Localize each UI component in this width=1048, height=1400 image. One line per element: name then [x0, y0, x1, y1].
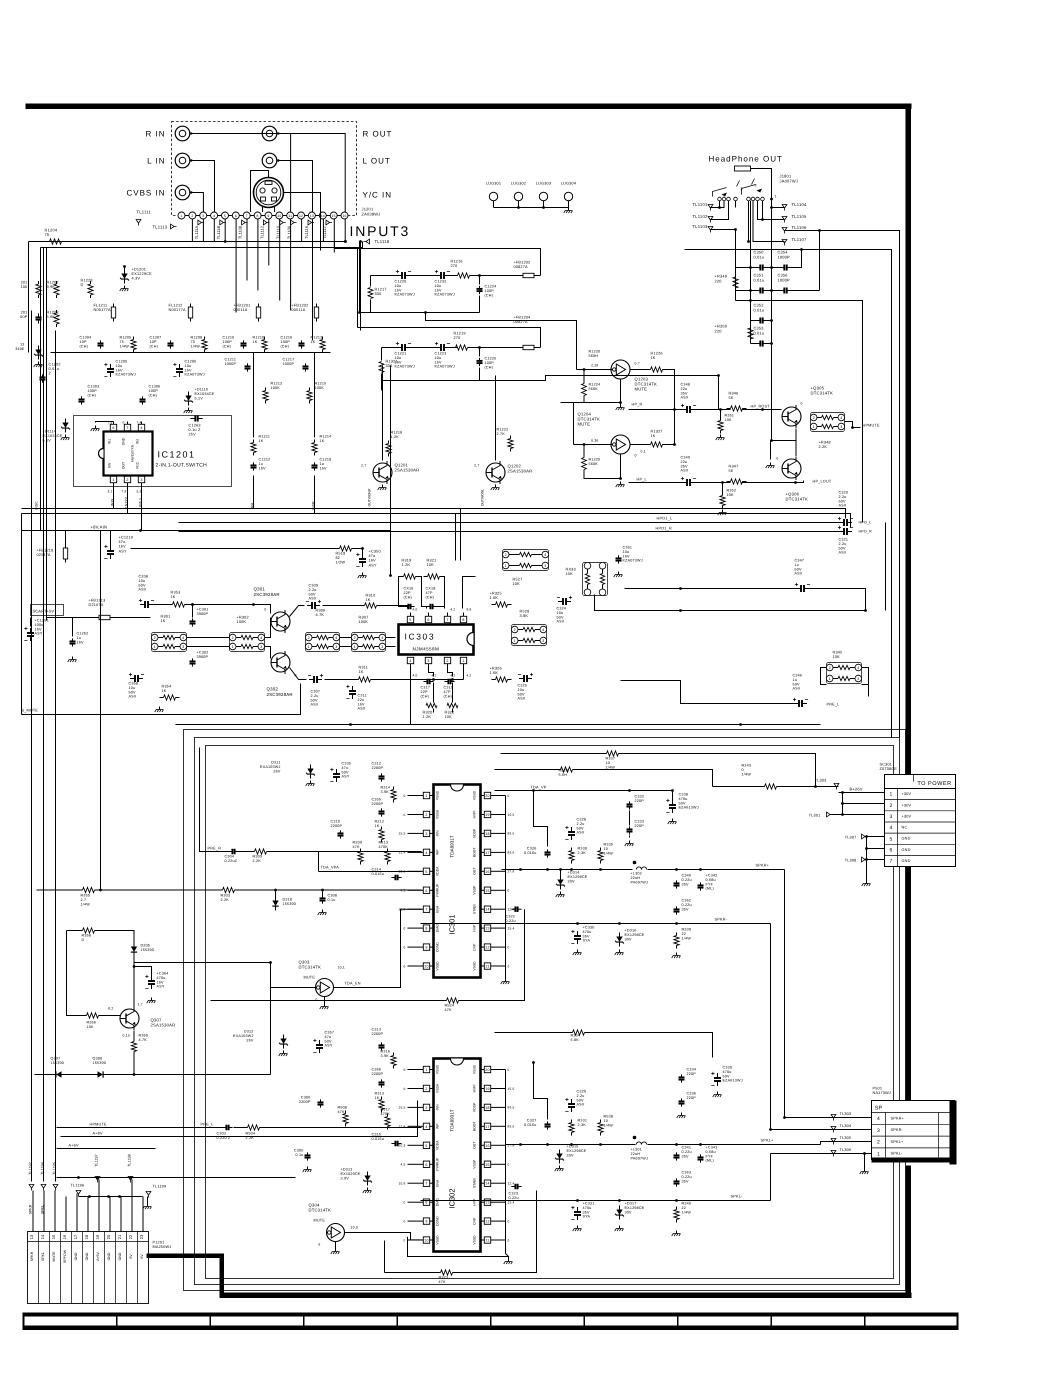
inductor L301 [633, 1136, 637, 1140]
svg-text:7,8: 7,8 [122, 490, 127, 494]
svg-text:R1208: R1208 [191, 336, 203, 340]
svg-text:18: 18 [485, 832, 489, 836]
ground Q1203 [620, 405, 622, 408]
svg-text:4: 4 [260, 636, 262, 640]
svg-text:89.6: 89.6 [508, 1125, 515, 1129]
svg-text:TL1105: TL1105 [792, 214, 808, 219]
svg-text:16: 16 [342, 214, 346, 218]
svg-text:00P: 00P [20, 315, 28, 319]
svg-text:R347: R347 [729, 465, 739, 469]
svg-text:35V: 35V [583, 1210, 591, 1214]
svg-text:1.6K: 1.6K [490, 671, 499, 675]
wire conn v3 [54, 1191, 56, 1232]
svg-text:4: 4 [542, 628, 544, 632]
svg-text:4: 4 [213, 214, 215, 218]
svg-text:+R348: +R348 [819, 441, 831, 445]
wire conn v9 [120, 1197, 122, 1232]
svg-text:R1224: R1224 [589, 383, 601, 387]
svg-text:16: 16 [62, 1234, 67, 1239]
svg-text:14: 14 [485, 908, 489, 912]
dashed input box [172, 122, 357, 216]
svg-text:2SA1530AR: 2SA1530AR [508, 469, 533, 474]
svg-text:2: 2 [877, 1140, 880, 1146]
ground C338 [672, 819, 674, 822]
svg-text:GND: GND [107, 1252, 111, 1260]
svg-text:47P: 47P [444, 690, 452, 694]
svg-text:ASX: ASX [793, 687, 801, 691]
svg-text:1: 1 [180, 214, 182, 218]
svg-text:SPKR+: SPKR+ [891, 1116, 905, 1120]
svg-text:ASY: ASY [35, 632, 43, 636]
svg-text:1: 1 [890, 792, 893, 798]
svg-text:(CH): (CH) [485, 365, 494, 369]
svg-text:R213: R213 [379, 841, 389, 845]
svg-text:SPKR-: SPKR- [891, 1128, 904, 1132]
svg-text:C208: C208 [139, 575, 149, 579]
wire hp tl1101 [711, 201, 725, 208]
border top bar [26, 104, 912, 110]
wire sp p2 [821, 1142, 872, 1145]
svg-text:6: 6 [425, 1163, 427, 1167]
svg-text:R1214: R1214 [320, 435, 332, 439]
svg-text:C310: C310 [331, 820, 341, 824]
svg-text:6V: 6V [140, 1254, 144, 1259]
wire pin11 stub [290, 219, 292, 311]
svg-text:STABI: STABI [473, 904, 477, 914]
svg-text:270: 270 [451, 264, 458, 268]
svg-text:1K: 1K [651, 434, 656, 438]
wire hp y300 [736, 301, 863, 523]
svg-text:R331: R331 [578, 1119, 588, 1123]
svg-text:35V: 35V [682, 1179, 690, 1183]
svg-text:1u: 1u [793, 678, 798, 682]
svg-text:16V: 16V [185, 368, 193, 372]
svg-text:1K: 1K [162, 689, 167, 693]
svg-text:89.6: 89.6 [508, 851, 515, 855]
svg-text:10u: 10u [139, 579, 146, 583]
svg-text:C1263: C1263 [189, 424, 201, 428]
svg-text:1: 1 [462, 659, 464, 663]
svg-text:1u: 1u [77, 636, 82, 640]
svg-text:KZA073WJ: KZA073WJ [435, 293, 455, 297]
svg-text:11: 11 [485, 1239, 489, 1243]
transistor Q307 [120, 1009, 139, 1028]
svg-text:R1216: R1216 [451, 260, 463, 264]
svg-text:2.2u: 2.2u [839, 495, 847, 499]
transistor Q304 [327, 1224, 345, 1242]
svg-text:R320: R320 [423, 711, 433, 715]
wire q302 chain [290, 668, 307, 680]
section box outer [184, 730, 906, 1291]
wire tda_vpa [319, 871, 422, 873]
svg-text:KZA073WJ: KZA073WJ [185, 373, 205, 377]
svg-text:0.016u: 0.016u [372, 1137, 384, 1141]
svg-text:TL1113: TL1113 [153, 225, 168, 230]
border right bar upper [906, 104, 912, 775]
wire q307 col [133, 1031, 135, 1040]
svg-text:SPKL+: SPKL+ [891, 1140, 905, 1144]
wire q307 [67, 931, 87, 1016]
svg-text:12: 12 [299, 214, 303, 218]
capacitor C323 [511, 1186, 515, 1188]
svg-text:ASX: ASX [577, 831, 585, 835]
svg-text:MA250WJ: MA250WJ [153, 1245, 172, 1249]
svg-text:2: 2 [829, 666, 831, 670]
svg-text:47K: 47K [445, 1008, 453, 1012]
svg-text:SPKL: SPKL [41, 1252, 45, 1261]
wire hp row y230 [785, 230, 820, 232]
svg-text:R351: R351 [725, 414, 735, 418]
svg-text:10,0: 10,0 [351, 1226, 358, 1230]
svg-text:VDDP: VDDP [473, 828, 477, 838]
svg-text:HP_LOUT: HP_LOUT [813, 480, 832, 484]
svg-text:7: 7 [446, 618, 448, 622]
svg-text:1K: 1K [366, 598, 371, 602]
svg-text:C1210: C1210 [223, 336, 235, 340]
svg-text:+C343: +C343 [706, 1146, 718, 1150]
svg-text:2.3K: 2.3K [578, 851, 587, 855]
wire l302 out [648, 869, 761, 871]
svg-text:ASX: ASX [681, 396, 689, 400]
svg-text:1: 1 [877, 1152, 880, 1158]
svg-text:FYF: FYF [706, 882, 714, 886]
svg-text:16V: 16V [259, 466, 267, 470]
wire CVBS to pin [191, 193, 203, 213]
wire r346-q305 [743, 409, 782, 411]
svg-text:470u: 470u [723, 1070, 732, 1074]
svg-text:1K: 1K [651, 356, 656, 360]
svg-text:100P: 100P [223, 340, 233, 344]
svg-text:2,7: 2,7 [361, 464, 366, 468]
svg-text:ASX: ASX [139, 588, 147, 592]
svg-text:R1212: R1212 [271, 382, 283, 386]
svg-text:2.3K: 2.3K [578, 1123, 587, 1127]
wire pin16 stub [344, 219, 346, 242]
svg-text:GND: GND [74, 1252, 78, 1260]
svg-text:6.8K: 6.8K [571, 1038, 580, 1042]
border right bar middle [906, 867, 912, 1101]
svg-text:220P: 220P [687, 1096, 697, 1100]
svg-text:ZA038WJ: ZA038WJ [362, 211, 381, 216]
svg-text:C315: C315 [372, 1133, 382, 1137]
svg-text:1K: 1K [161, 619, 166, 623]
svg-text:C362: C362 [682, 899, 692, 903]
svg-text:VDDA: VDDA [436, 866, 440, 876]
svg-text:R345: R345 [833, 651, 843, 655]
wire R IN to pin [191, 134, 290, 213]
svg-text:VSSD: VSSD [436, 790, 440, 800]
svg-text:4: 4 [335, 636, 337, 640]
svg-text:SYA: SYA [583, 939, 591, 943]
svg-text:+FB1218: +FB1218 [37, 549, 54, 553]
network R348 [811, 413, 845, 432]
wire r524 [211, 1000, 447, 1002]
wire hp_r line [629, 409, 683, 411]
svg-text:+C364: +C364 [157, 972, 169, 976]
svg-text:3.9K: 3.9K [381, 790, 390, 794]
svg-text:0.22u: 0.22u [682, 1175, 692, 1179]
svg-text:3: 3 [890, 814, 893, 820]
svg-text:1/4W: 1/4W [742, 772, 752, 776]
svg-text:C326: C326 [527, 847, 537, 851]
svg-text:20V: 20V [567, 1153, 575, 1157]
wire pin10 stub [279, 219, 281, 301]
wire sp p1 [771, 1153, 872, 1155]
svg-text:3900P: 3900P [197, 612, 209, 616]
svg-text:D2107A: D2107A [89, 603, 104, 607]
svg-text:16V: 16V [77, 640, 85, 644]
wire sp gnd [864, 1154, 866, 1169]
svg-text:EX1298CE: EX1298CE [568, 875, 588, 879]
wire pin12 stub [301, 219, 303, 242]
svg-text:(ML): (ML) [706, 887, 714, 891]
svg-text:PRE_L: PRE_L [827, 703, 840, 707]
wire topower p6 [867, 848, 885, 850]
svg-text:4: 4 [425, 851, 427, 855]
svg-text:10u: 10u [435, 284, 442, 288]
svg-text:2,28: 2,28 [591, 364, 598, 368]
svg-text:0.22u: 0.22u [682, 878, 692, 882]
svg-text:1K: 1K [320, 439, 325, 443]
wire r334 [495, 1032, 573, 1034]
svg-text:R1211: R1211 [259, 435, 271, 439]
transistor Q305 [782, 407, 801, 426]
wire left v28 [28, 242, 30, 353]
svg-text:+D314: +D314 [568, 871, 580, 875]
svg-text:22u: 22u [681, 460, 688, 464]
svg-text:LUG301: LUG301 [486, 182, 501, 186]
svg-text:4: 4 [877, 1116, 880, 1122]
svg-text:R330: R330 [578, 847, 588, 851]
capacitor C325 [519, 678, 524, 680]
svg-text:20: 20 [106, 1234, 111, 1239]
svg-text:2.2u: 2.2u [839, 542, 847, 546]
svg-text:N00177A: N00177A [94, 308, 112, 312]
svg-text:R1213: R1213 [311, 336, 323, 340]
svg-text:1: 1 [505, 564, 507, 568]
S-video jack Y/C [254, 178, 284, 208]
resistor R323 [437, 1272, 441, 1274]
svg-text:2: 2 [191, 214, 193, 218]
svg-text:0,1: 0,1 [641, 450, 646, 454]
svg-text:50V: 50V [723, 1074, 731, 1078]
svg-text:EX1034CE: EX1034CE [195, 392, 215, 396]
wire hp tl1103 [711, 229, 736, 231]
svg-text:16V: 16V [435, 360, 443, 364]
svg-text:1K: 1K [171, 595, 176, 599]
svg-text:10u: 10u [435, 356, 442, 360]
svg-text:TL1197: TL1197 [95, 1154, 99, 1167]
svg-text:2: 2 [890, 803, 893, 809]
svg-text:22uH: 22uH [631, 1152, 641, 1156]
svg-text:10u: 10u [557, 611, 564, 615]
svg-text:2SC3928AR: 2SC3928AR [267, 692, 293, 697]
svg-text:C325: C325 [518, 684, 528, 688]
svg-text:10P: 10P [150, 340, 158, 344]
svg-text:8: 8 [257, 214, 259, 218]
svg-text:VSSD: VSSD [473, 1235, 477, 1245]
svg-text:5,3: 5,3 [137, 490, 142, 494]
svg-text:FL1211: FL1211 [94, 304, 108, 308]
svg-text:8: 8 [425, 927, 427, 931]
svg-text:R340: R340 [682, 1202, 692, 1206]
wire r518-c350 [352, 549, 363, 555]
svg-text:C339: C339 [723, 1066, 733, 1070]
IC U302 TDA8931T [434, 1059, 481, 1252]
svg-text:PWRUP: PWRUP [436, 883, 440, 896]
resistor R524 [443, 1000, 447, 1002]
svg-text:35V: 35V [681, 464, 689, 468]
wire c349-r347 [695, 482, 731, 484]
svg-text:ASX: ASX [358, 707, 366, 711]
wire pin7 stub [246, 219, 248, 281]
svg-text:+D317: +D317 [625, 1202, 637, 1206]
svg-text:2200P: 2200P [372, 766, 384, 770]
wire lug bus [494, 207, 569, 209]
wire hbus y513 [22, 514, 851, 528]
svg-text:TDA_VPA: TDA_VPA [321, 866, 340, 870]
svg-text:+C331: +C331 [583, 1202, 595, 1206]
svg-text:ASY: ASY [157, 985, 165, 989]
svg-text:16V: 16V [320, 466, 328, 470]
wire pre_l2 [198, 1127, 223, 1129]
wire hp_l line [629, 482, 683, 484]
ground C350b [362, 573, 364, 576]
svg-text:+D315: +D315 [567, 1145, 579, 1149]
svg-text:+FB1213: +FB1213 [89, 599, 106, 603]
svg-text:GND: GND [118, 1252, 122, 1260]
svg-text:11: 11 [485, 965, 489, 969]
wire conn row y1196 [79, 1196, 143, 1198]
svg-text:330: 330 [386, 364, 393, 368]
svg-text:22P: 22P [421, 690, 429, 694]
svg-text:4,2: 4,2 [432, 674, 437, 678]
wire vert x360 [360, 242, 362, 331]
svg-text:TL1194: TL1194 [41, 1162, 45, 1175]
svg-text:HVPI: HVPI [473, 810, 477, 818]
svg-text:100P: 100P [149, 389, 159, 393]
svg-text:6: 6 [425, 889, 427, 893]
svg-text:50V: 50V [577, 826, 585, 830]
svg-text:21: 21 [117, 1234, 122, 1239]
svg-text:C329: C329 [577, 1090, 587, 1094]
svg-text:ASY: ASY [119, 549, 127, 553]
wire L OUT to pin [278, 161, 312, 213]
svg-text:R353: R353 [171, 591, 181, 595]
wire hp jack left [735, 201, 737, 208]
svg-text:13: 13 [485, 1201, 489, 1205]
svg-text:TL111A: TL111A [194, 225, 199, 239]
svg-text:50V: 50V [679, 801, 687, 805]
svg-text:KZA073WJ: KZA073WJ [435, 365, 455, 369]
svg-text:R1205: R1205 [120, 336, 132, 340]
svg-text:ASX: ASX [518, 697, 526, 701]
svg-text:VSSA: VSSA [436, 809, 440, 819]
svg-text:R1222: R1222 [497, 428, 509, 432]
svg-text:17: 17 [485, 851, 489, 855]
wire preamp in [153, 604, 173, 606]
svg-text:3900P: 3900P [197, 655, 209, 659]
svg-text:INN: INN [436, 830, 440, 836]
svg-text:0: 0 [508, 889, 510, 893]
svg-text:0: 0 [404, 1238, 406, 1242]
svg-text:2.2K: 2.2K [253, 859, 262, 863]
svg-text:2-IN,1-OUT,SWITCH: 2-IN,1-OUT,SWITCH [156, 463, 208, 469]
svg-text:6: 6 [427, 618, 429, 622]
wire row2 frame [382, 347, 400, 349]
svg-text:13: 13 [485, 927, 489, 931]
svg-text:0: 0 [508, 964, 510, 968]
svg-text:C332: C332 [635, 795, 645, 799]
wire c346 line [621, 681, 795, 704]
svg-text:00827A: 00827A [514, 320, 529, 324]
svg-text:100P: 100P [88, 389, 98, 393]
svg-text:+D1114: +D1114 [43, 430, 57, 434]
svg-text:0: 0 [508, 1068, 510, 1072]
connector J1201 pin row 1-16 [178, 212, 185, 219]
svg-text:470u: 470u [679, 797, 688, 801]
wire R OUT to pin [278, 134, 345, 213]
svg-text:3: 3 [425, 1106, 427, 1110]
svg-text:R1226: R1226 [651, 352, 663, 356]
svg-text:R337: R337 [606, 757, 616, 761]
svg-text:C1220: C1220 [395, 280, 407, 284]
svg-text:470u: 470u [157, 976, 166, 980]
svg-text:14: 14 [485, 1182, 489, 1186]
svg-text:C1225: C1225 [485, 357, 497, 361]
diode D left [35, 350, 41, 355]
ground R340 [676, 1231, 678, 1234]
svg-text:R316: R316 [381, 1050, 391, 1054]
svg-text:MUTE: MUTE [635, 387, 648, 392]
svg-text:2.2u: 2.2u [309, 588, 317, 592]
svg-text:+FB1202: +FB1202 [292, 304, 309, 308]
svg-text:ENA: ENA [436, 905, 440, 913]
svg-text:C319: C319 [444, 686, 454, 690]
wire a+6v [57, 1148, 156, 1150]
svg-text:+C350: +C350 [369, 550, 381, 554]
svg-text:HPMUTE: HPMUTE [90, 1123, 107, 1127]
svg-text:10: 10 [606, 761, 611, 765]
svg-text:TL308: TL308 [845, 859, 857, 863]
wire L IN to pin [191, 161, 214, 213]
svg-text:TDA8931T: TDA8931T [450, 835, 455, 857]
svg-text:EZA613WJ: EZA613WJ [679, 806, 699, 810]
svg-text:16V: 16V [35, 627, 43, 631]
svg-text:(ML): (ML) [706, 1159, 714, 1163]
svg-text:TL1118: TL1118 [375, 239, 390, 244]
wire r345 conn [862, 668, 869, 697]
svg-text:EX1229CE: EX1229CE [132, 272, 153, 276]
transistor Q1201 [373, 463, 392, 482]
wire pin14 stub [322, 219, 324, 242]
svg-text:C320: C320 [839, 491, 849, 495]
svg-text:0: 0 [404, 794, 406, 798]
svg-text:+L302: +L302 [631, 872, 642, 876]
wire smute [22, 684, 301, 715]
svg-text:+R325: +R325 [490, 592, 502, 596]
svg-text:VSSD: VSSD [436, 961, 440, 971]
svg-text:TL1196: TL1196 [71, 1184, 85, 1188]
svg-text:4: 4 [425, 1125, 427, 1129]
svg-text:MW1507XN: MW1507XN [131, 444, 135, 462]
svg-text:10K: 10K [427, 563, 435, 567]
svg-text:C349: C349 [681, 456, 691, 460]
svg-text:ASX: ASX [839, 504, 847, 508]
svg-text:B+26V: B+26V [850, 787, 863, 792]
svg-text:5: 5 [890, 836, 893, 842]
wire topower p1 [839, 792, 885, 794]
